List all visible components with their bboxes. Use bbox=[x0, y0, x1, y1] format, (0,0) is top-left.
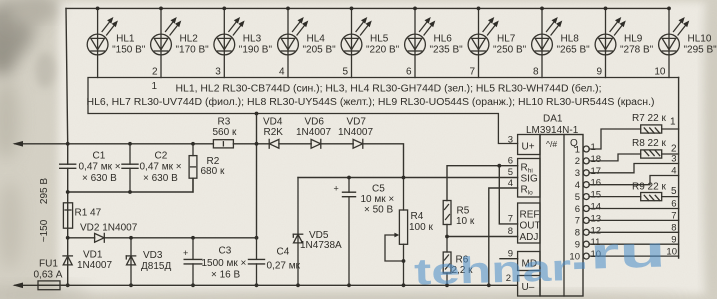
junction bbox=[66, 190, 70, 194]
svg-text:R5: R5 bbox=[457, 206, 470, 217]
IC DA1 LM3914N-1 bbox=[518, 114, 583, 297]
svg-text:~150: ~150 bbox=[39, 219, 50, 242]
diode VD3 zener bbox=[126, 238, 171, 285]
svg-text:5: 5 bbox=[575, 192, 580, 203]
diode VD2 bbox=[68, 223, 257, 243]
junction bbox=[497, 164, 501, 168]
svg-text:DA1: DA1 bbox=[543, 114, 563, 125]
wire output 2 bbox=[589, 154, 679, 161]
svg-text:1: 1 bbox=[591, 142, 596, 153]
svg-text:5: 5 bbox=[342, 67, 348, 78]
junction bbox=[350, 6, 354, 10]
svg-text:HL6, HL7 RL30-UV744D (фиол.);: HL6, HL7 RL30-UV744D (фиол.); HL8 RL30-U… bbox=[87, 96, 655, 108]
svg-text:R7 22 к: R7 22 к bbox=[632, 113, 666, 124]
svg-text:VD6: VD6 bbox=[305, 117, 325, 128]
svg-text:7: 7 bbox=[575, 216, 580, 227]
svg-text:7: 7 bbox=[508, 214, 513, 225]
wire output 10 bbox=[589, 255, 679, 257]
svg-text:R9 22 к: R9 22 к bbox=[632, 182, 666, 193]
svg-text:0,47 мк ×: 0,47 мк × bbox=[140, 162, 182, 173]
Rlo wire bbox=[489, 188, 518, 285]
svg-text:R1 47: R1 47 bbox=[75, 208, 102, 219]
svg-text:4: 4 bbox=[508, 178, 513, 189]
OUT to Rhi link wire bbox=[499, 166, 517, 224]
svg-text:Д815Д: Д815Д bbox=[141, 261, 171, 272]
bottom bus wire bbox=[60, 284, 517, 286]
LED HL10 bbox=[654, 6, 717, 77]
svg-text:7: 7 bbox=[469, 67, 475, 78]
wire output 8 bbox=[589, 231, 679, 233]
mid rail wire bbox=[68, 144, 404, 178]
svg-text:"235 В": "235 В" bbox=[430, 45, 464, 56]
svg-text:"190 В": "190 В" bbox=[239, 45, 273, 56]
svg-text:"220 В": "220 В" bbox=[366, 45, 400, 56]
svg-text:HL6: HL6 bbox=[434, 34, 453, 45]
svg-text:OUT: OUT bbox=[520, 221, 541, 232]
svg-text:^/#: ^/# bbox=[546, 139, 557, 149]
wire output 9 bbox=[589, 243, 679, 245]
wire output 3 bbox=[589, 164, 679, 173]
svg-text:HL1, HL2 RL30-CB744D (син.);: HL1, HL2 RL30-CB744D (син.); HL3, HL4 RL… bbox=[176, 83, 602, 95]
svg-text:× 50 В: × 50 В bbox=[364, 205, 394, 216]
svg-text:8: 8 bbox=[533, 67, 539, 78]
junction bbox=[296, 283, 300, 287]
lower rail of C1 C2 R2 bbox=[68, 178, 193, 192]
resistor R2 bbox=[189, 144, 225, 192]
svg-text:3: 3 bbox=[671, 154, 676, 165]
svg-text:REF: REF bbox=[520, 210, 540, 221]
svg-text:1N4007: 1N4007 bbox=[296, 127, 331, 138]
wire R5 to R6 bbox=[446, 225, 448, 253]
junction bbox=[191, 236, 195, 240]
junction bbox=[255, 142, 259, 146]
svg-text:"250 В": "250 В" bbox=[493, 45, 527, 56]
junction bbox=[96, 6, 100, 10]
LED HL3 bbox=[214, 6, 273, 77]
junction bbox=[255, 112, 259, 116]
capacitor C5 electrolytic bbox=[334, 178, 395, 286]
IC output numbers column bbox=[569, 142, 601, 262]
LED HL9 bbox=[595, 6, 654, 77]
LED HL2 bbox=[151, 6, 210, 77]
svg-text:VD1: VD1 bbox=[83, 250, 103, 261]
svg-text:VD3: VD3 bbox=[143, 250, 163, 261]
LED HL5 bbox=[341, 6, 400, 77]
svg-text:"150 В": "150 В" bbox=[112, 45, 146, 56]
wire output 1 bbox=[589, 129, 679, 149]
svg-text:1: 1 bbox=[151, 81, 157, 92]
junction bbox=[413, 6, 417, 10]
svg-text:ADJ: ADJ bbox=[520, 232, 539, 243]
svg-text:1500 мк ×: 1500 мк × bbox=[202, 258, 247, 269]
svg-text:1: 1 bbox=[575, 144, 580, 155]
svg-text:6: 6 bbox=[575, 204, 580, 215]
capacitor C4 bbox=[249, 247, 301, 272]
junction bbox=[402, 176, 406, 180]
svg-text:8: 8 bbox=[508, 226, 513, 237]
svg-text:SIG: SIG bbox=[521, 174, 538, 185]
svg-text:"295 В": "295 В" bbox=[684, 45, 717, 56]
resistor R3 bbox=[213, 117, 237, 148]
junction bbox=[604, 6, 608, 10]
left spine wire (top) bbox=[66, 8, 68, 143]
left spine wire (lower) bbox=[67, 144, 69, 285]
svg-text:C5: C5 bbox=[372, 184, 385, 195]
svg-text:× 630 В: × 630 В bbox=[82, 173, 117, 184]
svg-text:5: 5 bbox=[508, 167, 513, 178]
svg-text:U+: U+ bbox=[522, 142, 535, 153]
LED HL1 bbox=[87, 6, 146, 77]
svg-text:10: 10 bbox=[666, 247, 677, 258]
svg-text:100 к: 100 к bbox=[409, 222, 433, 233]
diode VD6 bbox=[311, 139, 321, 148]
junction bbox=[255, 283, 259, 287]
svg-text:"170 В": "170 В" bbox=[176, 45, 210, 56]
junction bbox=[487, 283, 491, 287]
diode VD5 zener bbox=[293, 178, 342, 286]
svg-text:R3: R3 bbox=[218, 117, 231, 128]
svg-text:4: 4 bbox=[279, 67, 285, 78]
capacitor C2 bbox=[122, 144, 182, 192]
resistor R5 bbox=[443, 201, 475, 228]
svg-text:0,63 А: 0,63 А bbox=[34, 270, 63, 281]
svg-text:0,27 мк: 0,27 мк bbox=[267, 261, 301, 272]
resistor R8 bbox=[632, 138, 677, 158]
svg-text:+: + bbox=[183, 248, 188, 258]
LED HL8 bbox=[532, 6, 591, 77]
LED types note box bbox=[87, 78, 679, 144]
svg-text:VD4: VD4 bbox=[263, 117, 283, 128]
wire C4 column continuation bbox=[256, 238, 258, 285]
MD stub wire bbox=[500, 258, 518, 260]
svg-text:560 к: 560 к bbox=[213, 127, 237, 138]
diode VD6 bbox=[296, 117, 331, 149]
LED HL7 bbox=[468, 6, 527, 77]
svg-text:R8 22 к: R8 22 к bbox=[632, 138, 666, 149]
junction bbox=[191, 142, 195, 146]
svg-text:R4: R4 bbox=[411, 211, 424, 222]
Rhi wire bbox=[447, 166, 518, 201]
junction bbox=[66, 283, 70, 287]
svg-text:HL1: HL1 bbox=[116, 34, 135, 45]
svg-text:R2K: R2K bbox=[264, 127, 284, 138]
svg-text:C2: C2 bbox=[155, 151, 168, 162]
svg-text:tehnar: tehnar bbox=[414, 247, 572, 292]
input terminal arrow (line N) bbox=[15, 284, 38, 286]
svg-text:FU1: FU1 bbox=[39, 259, 58, 270]
svg-text:8: 8 bbox=[671, 223, 676, 234]
svg-text:10 мк ×: 10 мк × bbox=[361, 194, 395, 205]
svg-text:3: 3 bbox=[215, 67, 221, 78]
svg-text:× 16 В: × 16 В bbox=[211, 270, 241, 281]
svg-text:4: 4 bbox=[671, 166, 676, 177]
diode VD2 bbox=[95, 233, 105, 242]
diode VD7 bbox=[353, 139, 363, 148]
junction bbox=[540, 6, 544, 10]
svg-text:C3: C3 bbox=[219, 246, 232, 257]
wire output 7 bbox=[589, 219, 679, 221]
junction bbox=[286, 6, 290, 10]
svg-text:× 630 В: × 630 В bbox=[143, 173, 178, 184]
junction bbox=[347, 176, 351, 180]
diode VD7 bbox=[338, 117, 373, 149]
svg-text:1N4007: 1N4007 bbox=[338, 127, 373, 138]
svg-text:6: 6 bbox=[508, 156, 513, 167]
svg-text:HL7: HL7 bbox=[497, 34, 516, 45]
svg-text:4: 4 bbox=[575, 180, 580, 191]
svg-text:C1: C1 bbox=[93, 151, 106, 162]
svg-text:VD7: VD7 bbox=[347, 117, 367, 128]
junction bbox=[129, 236, 133, 240]
svg-text:3: 3 bbox=[575, 168, 580, 179]
watermark tehnar.ru bbox=[413, 227, 667, 292]
diode VD4 bbox=[263, 117, 283, 149]
svg-text:9: 9 bbox=[596, 67, 602, 78]
potentiometer R4 bbox=[385, 178, 433, 286]
svg-text:17: 17 bbox=[591, 166, 602, 177]
resistor R7 bbox=[632, 113, 676, 133]
svg-text:VD2 1N4007: VD2 1N4007 bbox=[80, 223, 138, 234]
DC+ feed vertical wire bbox=[256, 114, 258, 238]
capacitor C3 electrolytic bbox=[183, 238, 247, 285]
svg-text:14: 14 bbox=[591, 202, 602, 213]
svg-text:HL3: HL3 bbox=[243, 34, 262, 45]
capacitor C1 bbox=[60, 151, 121, 185]
svg-text:HL8: HL8 bbox=[561, 34, 580, 45]
svg-text:6: 6 bbox=[671, 199, 676, 210]
svg-text:2: 2 bbox=[152, 67, 158, 78]
top supply bus wire bbox=[66, 7, 669, 9]
svg-text:2: 2 bbox=[575, 156, 580, 167]
svg-text:"205 В": "205 В" bbox=[303, 45, 337, 56]
junction bbox=[66, 142, 70, 146]
junction bbox=[477, 6, 481, 10]
svg-text:5: 5 bbox=[671, 186, 677, 197]
svg-text:13: 13 bbox=[591, 213, 602, 224]
svg-text:9: 9 bbox=[671, 234, 676, 245]
resistor R9 bbox=[632, 182, 677, 201]
IC pin numbers left bbox=[506, 135, 513, 285]
junction bbox=[159, 6, 163, 10]
svg-text:C4: C4 bbox=[277, 247, 290, 258]
svg-text:680 к: 680 к bbox=[201, 166, 225, 177]
svg-text:15: 15 bbox=[591, 190, 602, 201]
svg-text:.ru: .ru bbox=[568, 227, 666, 279]
resistor R2 body bbox=[189, 156, 197, 179]
junction bbox=[667, 6, 671, 10]
svg-text:HL10: HL10 bbox=[688, 34, 712, 45]
right harness bus wire bbox=[678, 78, 680, 259]
svg-text:"265 В": "265 В" bbox=[557, 45, 591, 56]
junction bbox=[222, 6, 226, 10]
wire output 6 bbox=[589, 208, 679, 210]
svg-text:1N4738A: 1N4738A bbox=[300, 240, 342, 251]
svg-text:HL2: HL2 bbox=[180, 34, 199, 45]
LED HL4 bbox=[278, 6, 337, 77]
svg-text:"278 В": "278 В" bbox=[620, 45, 654, 56]
svg-text:1: 1 bbox=[670, 117, 676, 128]
svg-text:HL4: HL4 bbox=[307, 34, 326, 45]
input terminal arrow (line L) bbox=[15, 143, 68, 145]
svg-text:295 В: 295 В bbox=[39, 178, 50, 204]
LED HL6 bbox=[405, 6, 464, 77]
svg-text:HL5: HL5 bbox=[370, 34, 389, 45]
junction bbox=[445, 283, 449, 287]
diode VD4 bbox=[269, 139, 279, 148]
svg-text:16: 16 bbox=[591, 178, 602, 189]
svg-text:3: 3 bbox=[508, 135, 513, 146]
svg-text:7: 7 bbox=[671, 211, 676, 222]
resistor R6 bbox=[443, 252, 473, 285]
junction bbox=[445, 235, 449, 239]
resistor R1 bbox=[63, 203, 101, 228]
junction bbox=[128, 142, 132, 146]
ADJ wire bbox=[447, 236, 518, 238]
diode VD1 bbox=[63, 256, 72, 265]
svg-text:+: + bbox=[334, 184, 339, 194]
junction bbox=[66, 236, 70, 240]
svg-text:18: 18 bbox=[591, 154, 602, 165]
svg-text:HL9: HL9 bbox=[624, 34, 643, 45]
svg-text:6: 6 bbox=[406, 67, 412, 78]
resistor R1 body bbox=[63, 203, 72, 228]
svg-text:10: 10 bbox=[654, 67, 666, 78]
wire output 4 bbox=[589, 176, 679, 185]
diode VD3 bbox=[127, 256, 136, 265]
SIG line wire bbox=[298, 177, 518, 179]
diode VD1 bbox=[63, 250, 112, 272]
wire output 5 bbox=[589, 196, 679, 198]
svg-text:0,47 мк ×: 0,47 мк × bbox=[79, 162, 121, 173]
fuse FU1 bbox=[34, 259, 68, 290]
svg-text:1N4007: 1N4007 bbox=[77, 260, 112, 271]
svg-text:10 к: 10 к bbox=[456, 216, 475, 227]
